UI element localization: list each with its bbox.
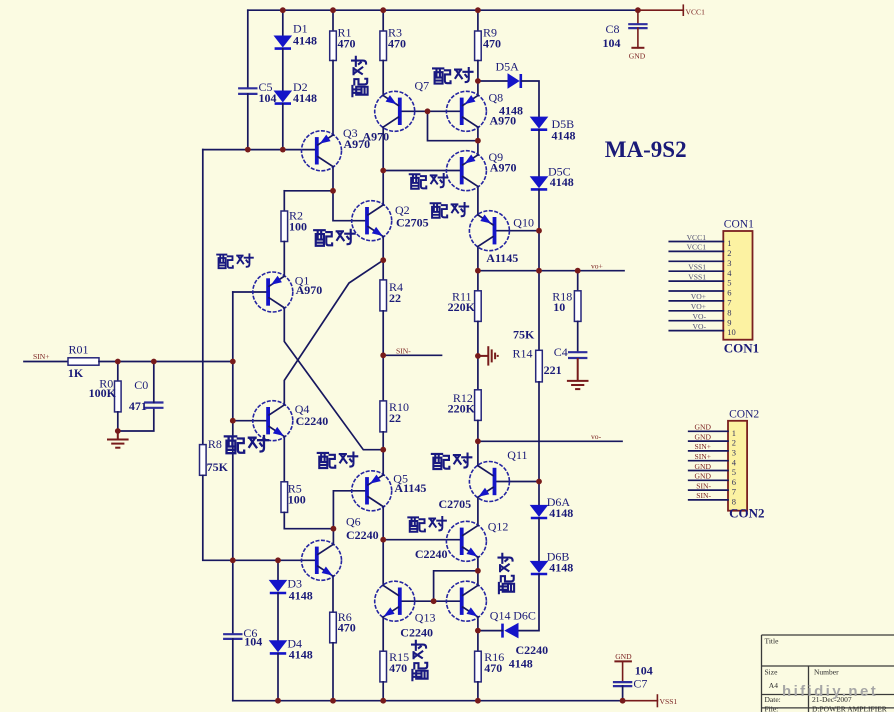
svg-text:8: 8 — [732, 497, 736, 507]
pin 7 CON1 — [669, 300, 723, 302]
svg-text:C7: C7 — [633, 677, 647, 691]
capacitor C0 471 — [144, 401, 163, 403]
svg-text:VCC1: VCC1 — [686, 7, 706, 16]
wire R2 branch — [284, 190, 333, 192]
matched-pair label T4 — [431, 203, 448, 217]
pin 2 CON2 — [689, 440, 728, 442]
resistor R9 470 — [475, 31, 482, 61]
pin 5 CON1 — [669, 280, 723, 282]
diode D5A 4148 — [508, 73, 520, 89]
pin 6 CON2 — [689, 479, 728, 481]
pin 10 CON1 — [669, 330, 723, 332]
wire R8 feedback line — [202, 150, 204, 445]
wire D5B to D5C — [538, 130, 540, 176]
junction dots — [280, 7, 286, 13]
pin 4 CON2 — [689, 460, 728, 462]
wire D5A anode — [478, 80, 508, 82]
wire C5 top lead — [247, 10, 249, 88]
wire C4 to ground — [577, 358, 579, 381]
svg-text:CON1: CON1 — [724, 219, 754, 231]
resistor R0 100K — [115, 381, 122, 412]
svg-text:Q13: Q13 — [415, 611, 436, 625]
svg-text:104: 104 — [259, 91, 277, 105]
resistor R11 220K — [475, 291, 482, 322]
svg-text:R01: R01 — [69, 343, 89, 357]
wire Q3 base net — [203, 149, 317, 151]
matched-pair label T2 — [433, 68, 450, 83]
svg-text:8: 8 — [727, 307, 731, 317]
wire GND to C7 — [622, 661, 624, 682]
svg-text:3: 3 — [732, 448, 736, 458]
wire R12 to VO- — [477, 420, 479, 441]
wire R10 bottom — [382, 432, 384, 450]
svg-text:470: 470 — [483, 36, 501, 50]
wire R11 to R12 — [477, 321, 479, 389]
pin 3 CON1 — [669, 260, 723, 262]
svg-text:GND: GND — [615, 652, 632, 661]
resistor R10 22 — [380, 401, 387, 432]
transistor Q1 A970 — [253, 272, 293, 312]
wire R1 top lead — [332, 10, 334, 31]
resistor R3 470 — [380, 31, 387, 61]
resistor R8 75K — [200, 445, 207, 476]
svg-text:SIN+: SIN+ — [694, 442, 711, 451]
svg-text:75K: 75K — [513, 328, 535, 342]
svg-text:R8: R8 — [208, 437, 222, 451]
resistor R14 75K — [536, 350, 543, 382]
svg-text:75K: 75K — [207, 460, 229, 474]
wire R2 to Q1 collector — [283, 242, 285, 277]
svg-text:470: 470 — [338, 621, 356, 635]
svg-text:1: 1 — [732, 428, 736, 438]
svg-text:1: 1 — [727, 238, 731, 248]
svg-text:4148: 4148 — [549, 560, 573, 574]
transistor Q14 C2240 — [446, 581, 486, 621]
pin 5 CON2 — [689, 470, 728, 472]
svg-text:VO+: VO+ — [691, 302, 706, 311]
wire Q13 emitter to R15 — [382, 617, 384, 651]
resistor R01 1K — [68, 358, 99, 365]
pin 2 CON1 — [669, 250, 723, 252]
svg-text:Date:: Date: — [765, 695, 781, 704]
svg-text:1K: 1K — [68, 366, 84, 380]
wire Q6 emitter to R6 — [332, 576, 334, 612]
wire D3 to D4 — [277, 593, 279, 640]
svg-text:VCC1: VCC1 — [687, 233, 707, 242]
svg-text:hifidiy.net: hifidiy.net — [782, 683, 878, 700]
svg-text:C2240: C2240 — [296, 414, 329, 428]
svg-text:4148: 4148 — [550, 175, 574, 189]
svg-text:5: 5 — [727, 278, 731, 288]
capacitor C6 104 — [223, 633, 242, 635]
wire R0 top lead — [117, 362, 119, 382]
svg-text:4148: 4148 — [293, 91, 317, 105]
wire D1 top lead — [282, 10, 284, 35]
svg-text:VO-: VO- — [693, 312, 707, 321]
wire R18 to C4 — [577, 321, 579, 352]
wire C0 top lead — [153, 362, 155, 403]
svg-text:470: 470 — [388, 36, 406, 50]
transistor Q7 A970 — [375, 91, 415, 131]
wire Q12 emitter to Q13/Q14 bases — [434, 571, 478, 601]
connector CON1 — [723, 231, 752, 340]
connector CON2 — [728, 421, 747, 511]
wire R4 to SIN- node — [382, 311, 384, 355]
wire D5C to Q10 base node — [538, 190, 540, 231]
matched-pair label T13 (vertical) — [412, 641, 428, 680]
wire Q4 base — [233, 420, 268, 422]
matched-pair label T10 — [432, 454, 449, 469]
wire node to Q2 collector — [382, 171, 384, 205]
svg-text:Q14: Q14 — [490, 608, 511, 622]
wire Q10 to VO+ — [477, 247, 479, 271]
wire Q6 collector — [332, 529, 334, 545]
diode D6B 4148 — [530, 561, 549, 573]
wire SIN+ input — [24, 361, 68, 363]
pin 1 CON2 — [689, 430, 728, 432]
svg-text:Q8: Q8 — [489, 90, 504, 104]
resistor R1 470 — [330, 31, 337, 61]
wire R2 top lead — [283, 191, 285, 211]
wire Q3 emitter node — [332, 167, 334, 191]
svg-text:104: 104 — [603, 36, 621, 50]
wire VO+ rail — [478, 270, 624, 272]
wire R3 top lead — [382, 10, 384, 31]
svg-text:4148: 4148 — [293, 33, 317, 47]
wire D6C to Q14 emitter — [478, 630, 503, 632]
svg-text:VSS1: VSS1 — [660, 697, 678, 706]
svg-text:4148: 4148 — [289, 589, 313, 603]
power VCC1 — [682, 5, 684, 15]
svg-text:C2705: C2705 — [439, 497, 472, 511]
svg-text:221: 221 — [544, 363, 562, 377]
wire Q10 base — [494, 230, 539, 232]
wire R9 to Q8 emitter — [477, 61, 479, 96]
svg-text:C8: C8 — [606, 22, 620, 36]
wire C6 to bottom rail — [232, 639, 234, 701]
wire top VCC rail — [248, 9, 638, 11]
svg-text:Q12: Q12 — [488, 519, 509, 533]
wire Q11 emitter to Q12 — [477, 497, 479, 525]
wire Q7 collector node — [382, 127, 384, 170]
capacitor C7 104 — [613, 681, 632, 683]
wire Q9 to Q10 — [477, 187, 479, 215]
diode D4 4148 — [269, 640, 288, 652]
matched-pair label T7 — [225, 436, 244, 453]
wire R5 to Q5 base node — [284, 512, 333, 528]
svg-text:GND: GND — [695, 462, 712, 471]
svg-text:SIN-: SIN- — [696, 491, 711, 500]
svg-text:CON2: CON2 — [729, 408, 759, 420]
svg-text:VO+: VO+ — [691, 292, 706, 301]
svg-text:A1145: A1145 — [486, 251, 518, 265]
transistor Q6 C2240 — [302, 540, 342, 580]
svg-text:220K: 220K — [448, 300, 476, 314]
wire input vertical to Q1/Q4 bases — [232, 292, 234, 560]
matched-pair label T5 — [314, 230, 332, 246]
svg-text:MA-9S2: MA-9S2 — [605, 137, 687, 162]
wire VO+ to R11 — [477, 271, 479, 291]
ground feedback tap — [478, 355, 488, 357]
svg-text:VO-: VO- — [693, 322, 707, 331]
wire Q11 base — [494, 481, 539, 483]
wire bottom VSS rail — [233, 700, 623, 702]
wire Q9 base — [383, 170, 461, 172]
diode D5B 4148 — [530, 117, 549, 129]
svg-text:VCC1: VCC1 — [687, 243, 707, 252]
matched-pair label T9 — [318, 453, 335, 468]
title block — [762, 635, 894, 712]
wire D4 to rail — [277, 654, 279, 701]
svg-text:vo+: vo+ — [591, 261, 603, 270]
wire Q4 collector to R4 node — [284, 260, 383, 405]
wire VCC1 stub — [638, 9, 683, 11]
diode D6C 4148 — [501, 624, 504, 638]
pin 6 CON1 — [669, 290, 723, 292]
svg-text:A970: A970 — [490, 160, 517, 174]
svg-text:22: 22 — [389, 291, 401, 305]
wire D3 top lead — [277, 560, 279, 580]
wire C0 bottom L — [118, 408, 154, 431]
wire Q12 emitter node — [477, 557, 479, 585]
wire VO- rail — [478, 440, 622, 442]
svg-text:22: 22 — [389, 411, 401, 425]
transistor Q8 A970 — [446, 91, 486, 131]
transistor Q11 C2705 — [469, 462, 509, 502]
wire D2 bottom lead — [282, 104, 284, 150]
matched-pair label T6 — [217, 255, 233, 269]
wire R1 to Q3 — [332, 61, 334, 136]
resistor R2 100 — [281, 211, 288, 242]
pin 8 CON1 — [669, 310, 723, 312]
resistor R12 220K — [475, 390, 482, 421]
wire bias chain to VO+ — [538, 231, 540, 271]
resistor R6 470 — [330, 612, 337, 643]
wire VSS1 stub — [623, 700, 658, 702]
svg-text:C2240: C2240 — [346, 528, 379, 542]
svg-text:C0: C0 — [134, 378, 148, 392]
svg-text:Number: Number — [814, 668, 839, 677]
wire Q1 emitter to R10 node — [284, 308, 383, 450]
svg-text:470: 470 — [484, 661, 502, 675]
wire D5A to D5B — [522, 81, 539, 117]
svg-text:Q11: Q11 — [507, 448, 527, 462]
svg-text:C2240: C2240 — [415, 547, 448, 561]
svg-text:3: 3 — [727, 258, 731, 268]
diode D2 4148 — [274, 91, 293, 103]
matched-pair label T12 (vertical) — [499, 554, 515, 593]
svg-text:GND: GND — [695, 472, 712, 481]
svg-text:D:POWER AMPLIFIER: D:POWER AMPLIFIER — [812, 705, 887, 712]
svg-text:100: 100 — [288, 492, 306, 506]
wire R16 to rail — [477, 682, 479, 701]
svg-text:10: 10 — [553, 300, 565, 314]
svg-text:Size: Size — [765, 668, 779, 677]
svg-text:2: 2 — [727, 248, 731, 258]
wire D6A to D6B — [538, 518, 540, 561]
svg-text:4: 4 — [727, 268, 732, 278]
svg-text:GND: GND — [629, 52, 646, 61]
transistor Q9 A970 — [446, 151, 486, 191]
svg-text:A4: A4 — [769, 681, 778, 690]
wire Q1 base — [233, 291, 268, 293]
svg-text:A970: A970 — [490, 114, 517, 128]
svg-text:CON2: CON2 — [729, 506, 764, 521]
diode D5C 4148 — [530, 176, 549, 188]
wire Q12 base — [383, 539, 461, 541]
svg-text:SIN+: SIN+ — [33, 352, 50, 361]
svg-text:VSS1: VSS1 — [688, 272, 706, 281]
capacitor C4 221 — [568, 351, 587, 353]
svg-text:Title: Title — [765, 637, 780, 646]
svg-text:7: 7 — [732, 487, 736, 497]
wire C7 to rail — [622, 686, 624, 701]
svg-text:Q6: Q6 — [346, 514, 361, 528]
wire to D6A — [538, 482, 540, 505]
svg-text:100: 100 — [289, 219, 307, 233]
svg-text:471: 471 — [129, 399, 147, 413]
pin 9 CON1 — [669, 320, 723, 322]
svg-text:File:: File: — [765, 705, 779, 712]
wire R14 to Q11 base node — [538, 382, 540, 482]
svg-text:D5A: D5A — [496, 60, 520, 74]
transistor Q4 C2240 — [253, 401, 293, 441]
capacitor C5 — [238, 87, 257, 89]
wire R6 to rail — [332, 643, 334, 701]
svg-text:470: 470 — [338, 36, 356, 50]
ground C4 — [567, 380, 589, 382]
pin 3 CON2 — [689, 450, 728, 452]
wire to R10 — [382, 355, 384, 401]
capacitor C8 104 — [628, 23, 647, 25]
pin 7 CON2 — [689, 489, 728, 491]
svg-text:CON1: CON1 — [724, 341, 759, 356]
wire C8 top stub — [637, 10, 639, 24]
diode D1 4148 — [274, 36, 293, 48]
matched-pair label T3 — [410, 174, 427, 188]
transistor Q5 A1145 — [352, 471, 392, 511]
svg-text:C2240: C2240 — [516, 643, 549, 657]
diode D6A 4148 — [530, 505, 549, 517]
wire base tap to Q8 collector — [428, 111, 478, 140]
svg-text:104: 104 — [635, 664, 653, 678]
wire R0 bottom lead — [117, 412, 119, 431]
wire R9 top lead — [477, 10, 479, 31]
ground input — [117, 431, 119, 440]
wire to C6 — [232, 560, 234, 634]
wire Q14 emitter to R16 — [477, 617, 479, 651]
resistor R18 10 — [574, 291, 581, 322]
svg-text:10: 10 — [727, 327, 736, 337]
svg-text:SIN+: SIN+ — [694, 452, 711, 461]
svg-text:SIN-: SIN- — [696, 481, 711, 490]
svg-text:R14: R14 — [513, 346, 533, 360]
wire R18 top — [577, 271, 579, 291]
svg-text:9: 9 — [727, 317, 731, 327]
wire Q4 emitter to R5 — [283, 437, 285, 482]
matched-pair label T1 (vertical) — [352, 57, 368, 96]
svg-text:GND: GND — [695, 423, 712, 432]
wire C5 bottom lead — [247, 94, 249, 150]
svg-text:2: 2 — [732, 438, 736, 448]
svg-text:C2705: C2705 — [396, 215, 429, 229]
svg-text:A1145: A1145 — [394, 481, 426, 495]
svg-text:7: 7 — [727, 298, 731, 308]
svg-text:4148: 4148 — [509, 657, 533, 671]
svg-text:4148: 4148 — [552, 128, 576, 142]
svg-text:100K: 100K — [89, 386, 117, 400]
svg-text:5: 5 — [732, 467, 736, 477]
svg-text:104: 104 — [244, 634, 262, 648]
pin 1 CON1 — [669, 241, 723, 243]
transistor Q3 A970 — [302, 131, 342, 171]
wire Q5 collector to Q13 — [382, 507, 384, 586]
svg-text:4: 4 — [732, 457, 737, 467]
wire Q8 collector to Q9 — [477, 127, 479, 155]
wire VO+ to R14 — [538, 271, 540, 351]
resistor R4 22 — [380, 280, 387, 311]
wire D1-D2 — [282, 49, 284, 91]
pin 8 CON2 — [689, 499, 728, 501]
resistor R15 470 — [380, 651, 387, 682]
svg-text:6: 6 — [727, 288, 731, 298]
wire Q13-Q14 base link — [400, 600, 462, 602]
svg-text:Q7: Q7 — [415, 79, 430, 93]
svg-text:470: 470 — [389, 661, 407, 675]
svg-text:4148: 4148 — [289, 648, 313, 662]
wire input to Q1 — [99, 361, 233, 363]
svg-text:Q10: Q10 — [513, 216, 534, 230]
transistor Q2 C2705 — [352, 201, 392, 241]
matched-pair label T11 — [408, 517, 425, 531]
svg-text:vo-: vo- — [591, 432, 602, 441]
wire SIN- stub — [383, 354, 441, 356]
wire D6B to D6C — [519, 574, 540, 630]
svg-text:A970: A970 — [363, 130, 390, 144]
power VSS1 — [656, 695, 658, 707]
wire R15 to rail — [382, 682, 384, 701]
diode D3 4148 — [269, 580, 288, 592]
ground GND C8 — [631, 47, 644, 49]
ground GND C7 — [614, 660, 632, 662]
wire Q3 to Q2 base — [333, 191, 367, 221]
svg-text:D6C: D6C — [513, 608, 536, 622]
svg-text:A970: A970 — [296, 283, 323, 297]
wire C8 to GND — [637, 28, 639, 48]
transistor Q12 C2240 — [446, 521, 486, 561]
wire VO- to Q11 — [477, 441, 479, 465]
svg-text:C2240: C2240 — [400, 625, 433, 639]
svg-text:C4: C4 — [554, 345, 568, 359]
resistor R5 100 — [281, 482, 288, 513]
svg-text:6: 6 — [732, 477, 736, 487]
svg-text:220K: 220K — [448, 402, 476, 416]
svg-text:GND: GND — [695, 432, 712, 441]
wire Q5 base — [333, 491, 366, 529]
wire Q7-Q8 base link — [400, 110, 462, 112]
resistor R16 470 — [475, 651, 482, 682]
wire R8 to Q6 base — [203, 475, 317, 560]
wire R3 to Q7 emitter — [382, 61, 384, 96]
transistor Q10 A1145 — [469, 211, 509, 251]
wire Q2 emitter to R4 — [382, 237, 384, 280]
svg-text:VSS1: VSS1 — [688, 263, 706, 272]
wire to Q5 emitter — [382, 450, 384, 475]
pin 4 CON1 — [669, 270, 723, 272]
svg-text:SIN-: SIN- — [396, 347, 411, 356]
svg-text:4148: 4148 — [549, 506, 573, 520]
transistor Q13 C2240 — [375, 581, 415, 621]
